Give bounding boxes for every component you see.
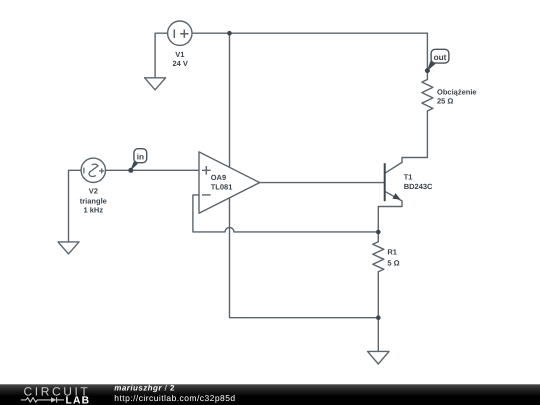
svg-text:24 V: 24 V	[172, 59, 187, 68]
svg-text:http://circuitlab.com/c32p85d: http://circuitlab.com/c32p85d	[114, 393, 235, 403]
svg-text:R1: R1	[387, 248, 397, 257]
svg-text:mariuszhgr / 2: mariuszhgr / 2	[114, 383, 175, 392]
svg-text:BD243C: BD243C	[404, 182, 433, 191]
svg-text:V2: V2	[89, 186, 98, 195]
svg-text:V1: V1	[175, 50, 184, 59]
svg-text:in: in	[137, 152, 144, 161]
svg-text:TL081: TL081	[211, 183, 233, 192]
svg-text:triangle: triangle	[80, 196, 107, 205]
svg-text:T1: T1	[404, 173, 413, 182]
svg-text:1 kHz: 1 kHz	[84, 206, 104, 215]
svg-text:25 Ω: 25 Ω	[437, 97, 453, 106]
svg-text:5 Ω: 5 Ω	[387, 259, 399, 268]
svg-text:out: out	[434, 53, 447, 62]
svg-text:Obciążenie: Obciążenie	[437, 88, 477, 97]
svg-text:OA9: OA9	[211, 173, 226, 182]
svg-text:LAB: LAB	[66, 395, 91, 405]
